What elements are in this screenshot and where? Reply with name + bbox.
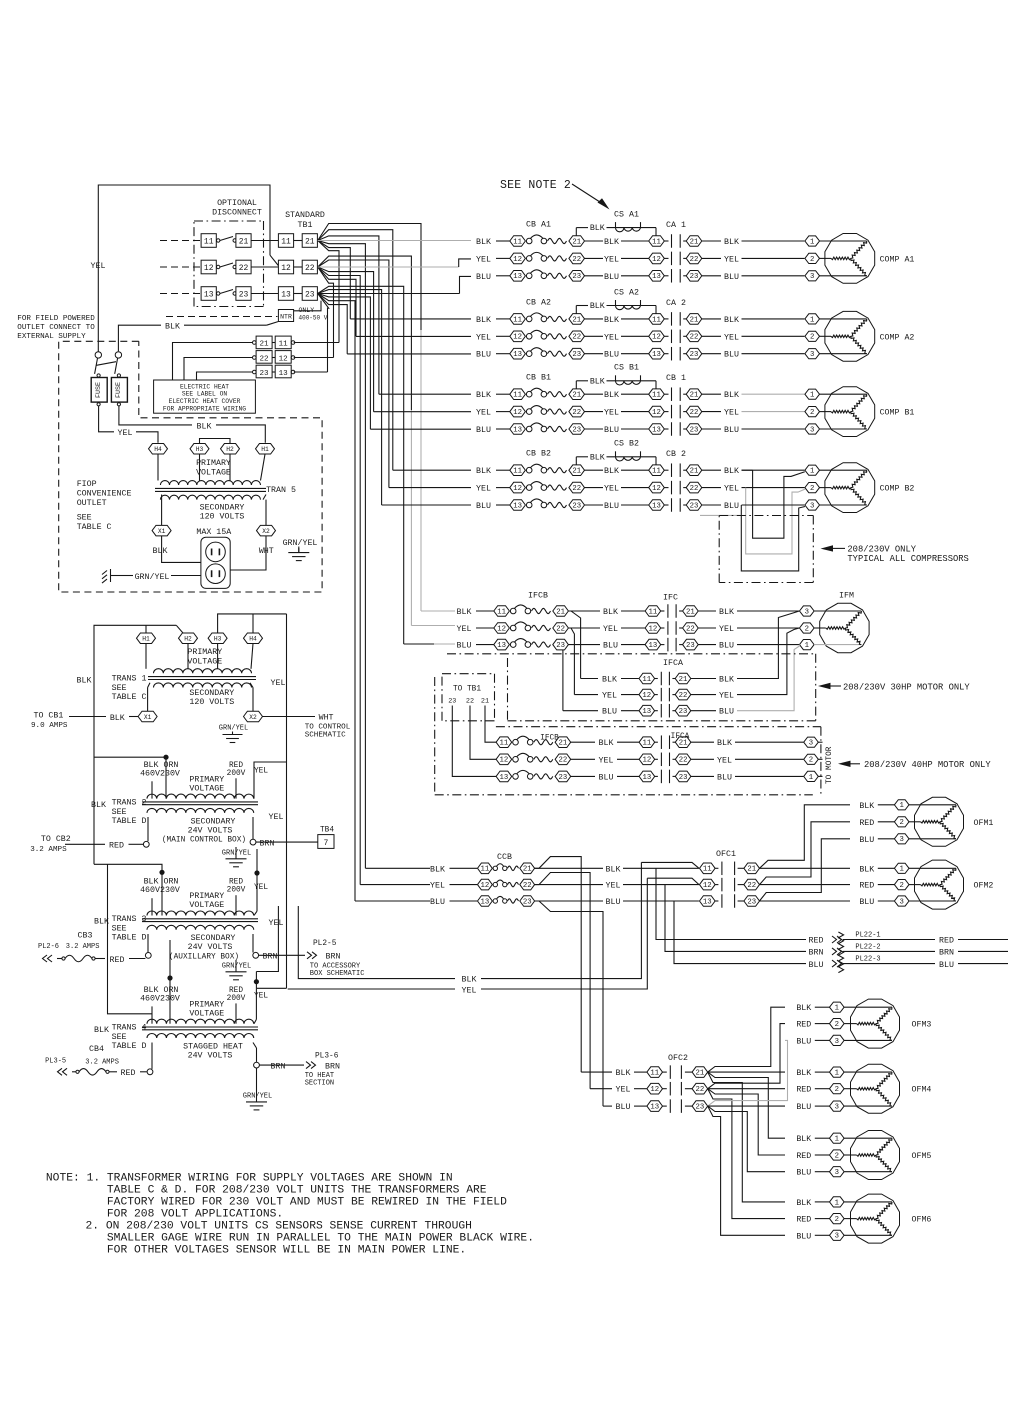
TRANS 2 secondary right <box>252 817 254 839</box>
wire to CB B2 BLK <box>318 230 393 471</box>
svg-text:BLK: BLK <box>462 976 477 985</box>
wire H1 riser <box>145 625 147 633</box>
label BLU <box>698 644 716 646</box>
svg-text:TRANS 4: TRANS 4 <box>112 1023 147 1032</box>
contact CA 2 pole 3 <box>664 353 668 355</box>
wire to CB B2 YEL <box>318 260 389 488</box>
wire <box>878 867 895 869</box>
switch terminal <box>115 352 121 358</box>
svg-text:BLK: BLK <box>590 453 605 462</box>
motor terminal 1 <box>830 1133 845 1143</box>
TRANS 2 secondary left <box>147 817 149 841</box>
svg-text:22: 22 <box>305 264 315 273</box>
svg-text:21: 21 <box>572 392 581 400</box>
svg-text:BLU: BLU <box>476 426 491 435</box>
TRANS 4 secondary left <box>151 1043 153 1069</box>
convenience outlet <box>201 537 230 588</box>
wire to motor terminal <box>742 275 805 277</box>
TRANS 1 core <box>148 676 256 678</box>
wire <box>569 610 601 612</box>
wire BLK bus down <box>108 864 153 1014</box>
wire <box>621 644 645 646</box>
svg-text:PL22-1: PL22-1 <box>855 932 880 940</box>
riser YEL TRANS 3 <box>256 849 258 873</box>
wire TB1-21 to CB A1 BLK (gray) <box>318 240 471 242</box>
terminal block TB1 21 <box>302 234 317 248</box>
wire <box>843 950 935 952</box>
svg-text:22: 22 <box>747 882 756 890</box>
motor terminal 3 <box>800 606 815 616</box>
wire <box>621 335 649 337</box>
wire TB1-22 to CB A1 YEL (gray) <box>318 266 459 268</box>
svg-text:11: 11 <box>497 608 506 616</box>
fuse F2 <box>117 374 120 377</box>
contact IFC <box>661 610 665 612</box>
wire <box>585 275 604 277</box>
svg-text:3: 3 <box>809 740 813 748</box>
wire to motor terminal <box>742 335 805 337</box>
wire 22 <box>470 706 496 760</box>
wire <box>574 694 638 696</box>
switch blade <box>217 292 220 295</box>
motor terminal 1 <box>804 771 819 781</box>
svg-text:BLK: BLK <box>719 676 734 685</box>
label YEL <box>702 411 721 413</box>
transformer TRANS 1 terminal H4 <box>244 633 263 644</box>
svg-text:BLU: BLU <box>796 1169 811 1178</box>
wire <box>623 884 699 886</box>
svg-text:2: 2 <box>810 485 814 493</box>
wire <box>634 1105 647 1107</box>
compressor motor COMP B1 <box>825 387 875 437</box>
wire <box>571 741 595 743</box>
wire <box>815 1234 830 1236</box>
contactor terminal 23 <box>686 271 702 282</box>
svg-text:460V230V: 460V230V <box>140 769 180 778</box>
wire <box>603 1105 612 1107</box>
svg-text:21: 21 <box>696 1070 705 1078</box>
switch blade <box>217 265 220 268</box>
svg-text:TO CONTROL: TO CONTROL <box>305 724 351 732</box>
svg-text:TABLE D: TABLE D <box>112 934 147 943</box>
OFC2 fan to OFM5 RED <box>708 1089 785 1155</box>
wire loop BLU <box>742 504 805 506</box>
wire to heat block 13 <box>318 294 329 373</box>
svg-text:BLU: BLU <box>859 836 874 845</box>
terminal 13 <box>478 896 493 907</box>
wire <box>878 838 895 840</box>
svg-text:CS B1: CS B1 <box>614 364 639 373</box>
svg-text:21: 21 <box>481 698 489 706</box>
svg-text:OFM6: OFM6 <box>912 1216 932 1225</box>
svg-text:CB B2: CB B2 <box>526 450 551 459</box>
wire <box>393 469 471 471</box>
svg-text:BLU: BLU <box>859 898 874 907</box>
svg-text:1: 1 <box>810 468 815 476</box>
svg-text:22: 22 <box>690 485 699 493</box>
svg-text:2: 2 <box>900 819 904 827</box>
motor terminal 2 <box>830 1214 845 1224</box>
contactor OFC1 terminal 13 <box>700 896 716 907</box>
svg-text:BLU: BLU <box>796 1037 811 1046</box>
svg-text:460V230V: 460V230V <box>140 994 180 1003</box>
wire <box>735 775 803 777</box>
wire <box>878 821 895 823</box>
svg-text:RED: RED <box>229 879 243 887</box>
wire <box>621 487 649 489</box>
svg-text:2: 2 <box>835 1152 839 1160</box>
label YEL pair <box>455 985 481 994</box>
contactor IFCA terminal 11 <box>639 673 655 684</box>
breaker pole 1 <box>526 467 532 473</box>
label BLK <box>698 610 716 612</box>
svg-text:21: 21 <box>239 237 249 246</box>
contact IFCA <box>655 678 658 680</box>
svg-text:CB 1: CB 1 <box>666 374 686 383</box>
motor terminal 2 <box>800 623 815 633</box>
svg-text:13: 13 <box>650 1104 659 1112</box>
contactor IFCA terminal 12 <box>639 754 655 765</box>
svg-text:BLK: BLK <box>153 547 168 556</box>
svg-text:13: 13 <box>643 774 652 782</box>
wire <box>843 963 935 965</box>
CCB to OFC2 branch YEL <box>535 873 591 1089</box>
svg-text:TABLE D: TABLE D <box>112 817 147 826</box>
svg-text:13: 13 <box>703 898 712 906</box>
wire <box>815 1039 830 1041</box>
circuit breaker CB4 <box>72 1071 76 1073</box>
svg-text:11: 11 <box>500 740 509 748</box>
svg-text:BLK: BLK <box>476 467 491 476</box>
wire BLK bus to TRANS 3 <box>94 864 162 872</box>
svg-text:YEL: YEL <box>604 333 619 342</box>
svg-text:13: 13 <box>513 426 522 434</box>
breaker pole <box>510 608 516 614</box>
wire to TB1-12 <box>270 255 278 265</box>
contactor terminal 23 <box>686 348 702 359</box>
wire <box>621 610 645 612</box>
svg-text:23: 23 <box>523 898 532 906</box>
wire to CCB BLU <box>318 294 355 902</box>
svg-text:VOLTAGE: VOLTAGE <box>187 657 222 666</box>
TRANS 3 secondary right <box>252 934 254 953</box>
svg-text:(AUXILLARY BOX): (AUXILLARY BOX) <box>169 953 239 961</box>
contactor terminal 12 CA 1 <box>649 253 665 264</box>
OFC2 fan to OFM3 BLK <box>708 1007 785 1072</box>
svg-text:CB4: CB4 <box>89 1045 104 1054</box>
motor terminal 3 <box>830 1230 845 1240</box>
svg-text:1: 1 <box>835 1070 840 1078</box>
svg-text:OUTLET CONNECT TO: OUTLET CONNECT TO <box>17 324 95 332</box>
wire to motor terminal <box>742 428 805 430</box>
svg-text:11: 11 <box>649 608 658 616</box>
svg-text:YEL: YEL <box>604 409 619 418</box>
svg-text:13: 13 <box>513 502 522 510</box>
wire BRN to PL3-6 <box>260 1064 305 1066</box>
svg-text:STANDARD: STANDARD <box>285 211 325 220</box>
svg-text:TYPICAL ALL COMPRESSORS: TYPICAL ALL COMPRESSORS <box>847 554 968 564</box>
wire <box>815 1137 830 1139</box>
wire <box>815 1023 830 1025</box>
svg-text:22: 22 <box>572 256 581 264</box>
terminal 11 <box>496 737 512 748</box>
wire <box>575 457 577 465</box>
motor terminal 3 <box>805 424 820 434</box>
risers primary <box>151 898 153 915</box>
svg-text:RED: RED <box>109 842 124 851</box>
svg-text:BLU: BLU <box>796 1232 811 1241</box>
contactor terminal 21 <box>686 389 702 400</box>
terminal 12 <box>510 406 526 417</box>
wire <box>251 240 278 242</box>
svg-text:BLK: BLK <box>476 238 491 247</box>
motor terminal 3 <box>894 834 909 844</box>
wire X2 to outlet <box>230 536 266 570</box>
wire <box>590 1088 612 1090</box>
contactor OFC2 terminal 13 <box>647 1101 663 1112</box>
label BLK <box>702 393 721 395</box>
wire <box>294 371 328 373</box>
svg-text:BLK: BLK <box>796 1004 811 1013</box>
svg-text:BLU: BLU <box>809 961 824 970</box>
svg-text:IFCA: IFCA <box>671 733 690 741</box>
svg-text:SECONDARY: SECONDARY <box>189 689 234 698</box>
terminal X2 <box>257 525 276 536</box>
wire <box>496 318 510 320</box>
svg-text:208/230V 40HP MOTOR ONLY: 208/230V 40HP MOTOR ONLY <box>864 760 991 770</box>
motor terminal 1 <box>805 465 820 475</box>
wire BRN to TB4 <box>256 841 318 843</box>
svg-text:VOLTAGE: VOLTAGE <box>189 1009 224 1018</box>
motor terminal 1 <box>830 1002 845 1012</box>
svg-text:FOR OTHER VOLTAGES SENSOR WILL: FOR OTHER VOLTAGES SENSOR WILL BE IN MAI… <box>107 1245 466 1257</box>
ground <box>235 960 237 972</box>
svg-text:BLU: BLU <box>476 273 491 282</box>
svg-text:11: 11 <box>513 468 522 476</box>
wire <box>585 504 604 506</box>
svg-text:120 VOLTS: 120 VOLTS <box>200 513 245 522</box>
svg-text:EXTERNAL SUPPLY: EXTERNAL SUPPLY <box>17 333 86 341</box>
svg-text:PRIMARY: PRIMARY <box>189 1000 224 1009</box>
wire <box>365 867 430 869</box>
svg-text:1: 1 <box>835 1136 840 1144</box>
wire <box>623 867 699 869</box>
svg-text:CB 2: CB 2 <box>666 450 686 459</box>
svg-text:CCB: CCB <box>497 853 512 862</box>
wire <box>294 266 303 268</box>
wire <box>129 958 145 960</box>
breaker pole <box>513 739 519 745</box>
wire <box>691 741 714 743</box>
svg-text:11: 11 <box>652 238 661 246</box>
svg-text:SCHEMATIC: SCHEMATIC <box>305 732 346 740</box>
svg-text:H3: H3 <box>196 446 204 453</box>
contactor terminal 22 <box>686 331 702 342</box>
breaker pole <box>513 774 519 780</box>
terminal 23 optional disconnect <box>236 287 251 301</box>
wire YEL down <box>255 972 257 989</box>
wire <box>294 293 303 295</box>
svg-text:BLU: BLU <box>604 273 619 282</box>
terminal block TB1 12 <box>278 260 293 274</box>
svg-text:YEL: YEL <box>254 992 268 1000</box>
svg-text:CB A1: CB A1 <box>526 221 551 230</box>
wire loop BLK <box>742 469 753 471</box>
risers primary <box>151 1006 153 1023</box>
circuit breaker CB3 <box>57 958 62 960</box>
svg-text:IFC: IFC <box>663 594 678 603</box>
contactor terminal 23 <box>686 500 702 511</box>
TRANS 3 core <box>142 918 258 920</box>
contactor IFCA terminal 23 <box>675 705 691 716</box>
contact CB 2 pole 3 <box>664 504 668 506</box>
motor terminal 3 <box>805 271 820 281</box>
30HP motor box <box>447 653 816 655</box>
terminal block 21-11 22-12 23-13 <box>256 336 272 349</box>
svg-text:SEE: SEE <box>112 684 127 693</box>
wire <box>382 504 471 506</box>
wire to motor terminal <box>742 353 805 355</box>
svg-text:2: 2 <box>835 1086 839 1094</box>
svg-text:BLK: BLK <box>616 1069 631 1078</box>
svg-text:11: 11 <box>481 866 490 874</box>
terminal 23 <box>553 639 569 650</box>
svg-text:21: 21 <box>572 316 581 324</box>
OFC2 fan to OFM3 BLU gray <box>708 1040 788 1106</box>
svg-text:CA 1: CA 1 <box>666 221 686 230</box>
terminal 22 <box>553 623 569 634</box>
svg-text:22: 22 <box>556 625 565 633</box>
electric heat box <box>154 380 256 413</box>
wire <box>496 257 510 259</box>
svg-text:BLU: BLU <box>603 642 618 651</box>
svg-text:12: 12 <box>642 692 651 700</box>
svg-text:12: 12 <box>652 485 661 493</box>
svg-text:22: 22 <box>690 334 699 342</box>
wire <box>450 900 478 902</box>
svg-text:BLU: BLU <box>724 273 739 282</box>
wire <box>585 318 604 320</box>
terminal 21 <box>553 606 569 617</box>
svg-text:BLK: BLK <box>599 739 614 748</box>
wire <box>294 240 303 242</box>
wire <box>421 610 455 612</box>
terminal 12 <box>478 879 493 890</box>
svg-text:13: 13 <box>497 642 506 650</box>
wire <box>585 428 604 430</box>
svg-text:11: 11 <box>652 468 661 476</box>
wire <box>691 758 714 760</box>
contact IFC <box>661 644 665 646</box>
svg-text:YEL: YEL <box>724 255 739 264</box>
wire <box>571 758 595 760</box>
wire <box>476 644 494 646</box>
svg-text:TO CB1: TO CB1 <box>34 712 64 721</box>
svg-text:12: 12 <box>513 409 522 417</box>
wire <box>623 900 699 902</box>
wire <box>450 884 478 886</box>
svg-text:X2: X2 <box>262 528 270 535</box>
svg-text:BLK: BLK <box>476 316 491 325</box>
svg-text:2: 2 <box>805 625 809 633</box>
terminal <box>253 952 259 958</box>
svg-text:BLK: BLK <box>606 865 621 874</box>
contactor terminal 21 <box>686 236 702 247</box>
svg-text:11: 11 <box>652 392 661 400</box>
terminal 22 <box>569 406 585 417</box>
svg-text:TO CB2: TO CB2 <box>41 835 71 844</box>
svg-text:SEE LABEL ON: SEE LABEL ON <box>182 391 228 398</box>
terminal 21 <box>569 389 585 400</box>
svg-text:SEE: SEE <box>112 1033 127 1042</box>
wire OFC1-23 to OFM2 BLU <box>760 900 851 902</box>
svg-text:12: 12 <box>649 625 658 633</box>
wire <box>621 504 649 506</box>
svg-text:BLU: BLU <box>604 351 619 360</box>
contactor terminal 12 CA 2 <box>649 331 665 342</box>
terminal 11 <box>494 606 510 617</box>
wire BLK from switch <box>118 325 161 351</box>
svg-text:12: 12 <box>650 1086 659 1094</box>
svg-text:12: 12 <box>652 409 661 417</box>
wire <box>379 393 471 395</box>
wire <box>476 627 494 629</box>
terminal 23 <box>520 896 535 907</box>
contactor IFC terminal 21 <box>683 606 699 617</box>
terminal 12 optional disconnect <box>201 260 216 274</box>
wire TO CB1 to X1 <box>69 716 106 718</box>
svg-text:YEL: YEL <box>476 333 491 342</box>
svg-text:22: 22 <box>572 485 581 493</box>
contact CA 2 pole 1 <box>664 318 668 320</box>
svg-text:12: 12 <box>703 882 712 890</box>
svg-text:PL3-6: PL3-6 <box>315 1053 339 1061</box>
junction dot TRANS 4 BLK <box>167 975 172 980</box>
terminal 23 <box>569 424 585 435</box>
svg-text:CONVENIENCE: CONVENIENCE <box>77 490 132 499</box>
svg-text:CA 2: CA 2 <box>666 299 686 308</box>
wire to motor terminal <box>742 318 805 320</box>
terminal 13 <box>496 771 512 782</box>
motor terminal 3 <box>805 500 820 510</box>
breaker pole 3 <box>526 502 532 508</box>
svg-text:11: 11 <box>650 1070 659 1078</box>
wire <box>496 240 510 242</box>
motor terminal 2 <box>804 754 819 764</box>
terminal block TB1 11 <box>278 234 293 248</box>
svg-text:22: 22 <box>523 882 532 890</box>
contactor OFC1 terminal 21 <box>744 863 760 874</box>
terminal 21 <box>569 236 585 247</box>
wire OFC1-23 to OFM1 BLU <box>760 839 851 901</box>
wire <box>691 678 716 680</box>
svg-text:YEL: YEL <box>717 756 732 765</box>
wire <box>585 240 604 242</box>
svg-text:H2: H2 <box>226 446 234 453</box>
wire <box>216 425 265 443</box>
contact CA 2 pole 2 <box>664 335 668 337</box>
wire <box>585 335 604 337</box>
wire <box>411 625 455 627</box>
wire <box>585 469 604 471</box>
svg-text:FUSE: FUSE <box>115 382 123 398</box>
riser YEL TRANS 2 <box>254 762 287 799</box>
fuse F1 <box>97 374 100 377</box>
svg-text:DISCONNECT: DISCONNECT <box>212 209 262 218</box>
svg-text:11: 11 <box>279 341 289 349</box>
svg-text:12: 12 <box>481 882 490 890</box>
breaker pole <box>510 642 516 648</box>
